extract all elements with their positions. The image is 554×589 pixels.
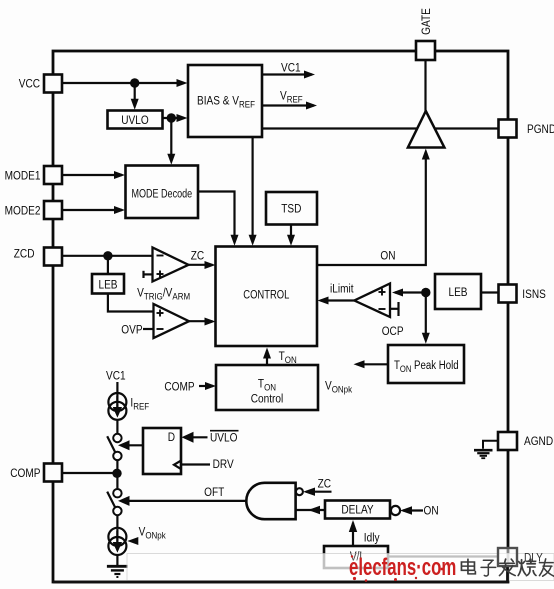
svg-text:UVLO: UVLO: [121, 114, 149, 127]
svg-text:ZC: ZC: [318, 478, 331, 491]
svg-text:iLimit: iLimit: [330, 283, 354, 296]
svg-text:ON: ON: [424, 505, 439, 518]
svg-text:MODE Decode: MODE Decode: [131, 187, 192, 201]
svg-text:MODE2: MODE2: [5, 205, 41, 218]
svg-text:LEB: LEB: [448, 286, 467, 299]
svg-text:Idly: Idly: [364, 532, 380, 545]
svg-text:OCP: OCP: [382, 325, 404, 338]
svg-text:ISNS: ISNS: [522, 288, 546, 301]
svg-text:VCC: VCC: [19, 78, 40, 91]
svg-text:UVLO: UVLO: [210, 432, 238, 445]
svg-text:MODE1: MODE1: [5, 170, 41, 183]
svg-text:VC1: VC1: [106, 370, 126, 383]
svg-text:COMP: COMP: [164, 381, 194, 394]
svg-text:OVP: OVP: [121, 324, 142, 337]
svg-text:ZCD: ZCD: [14, 248, 35, 261]
svg-text:OFT: OFT: [204, 486, 224, 499]
svg-text:DELAY: DELAY: [341, 504, 374, 517]
svg-text:COMP: COMP: [10, 467, 40, 480]
svg-text:VC1: VC1: [281, 62, 301, 75]
svg-text:D: D: [168, 431, 175, 444]
svg-text:PGND: PGND: [527, 123, 554, 136]
svg-text:ON: ON: [380, 250, 395, 263]
svg-text:DRV: DRV: [213, 458, 235, 471]
svg-text:ZC: ZC: [191, 250, 204, 263]
svg-text:Control: Control: [251, 393, 283, 406]
svg-text:elecfans·com: elecfans·com: [349, 554, 456, 581]
svg-text:CONTROL: CONTROL: [243, 288, 289, 301]
svg-text:LEB: LEB: [98, 279, 117, 292]
svg-text:AGND: AGND: [524, 435, 553, 448]
svg-text:TSD: TSD: [281, 203, 301, 216]
svg-text:GATE: GATE: [420, 8, 433, 35]
